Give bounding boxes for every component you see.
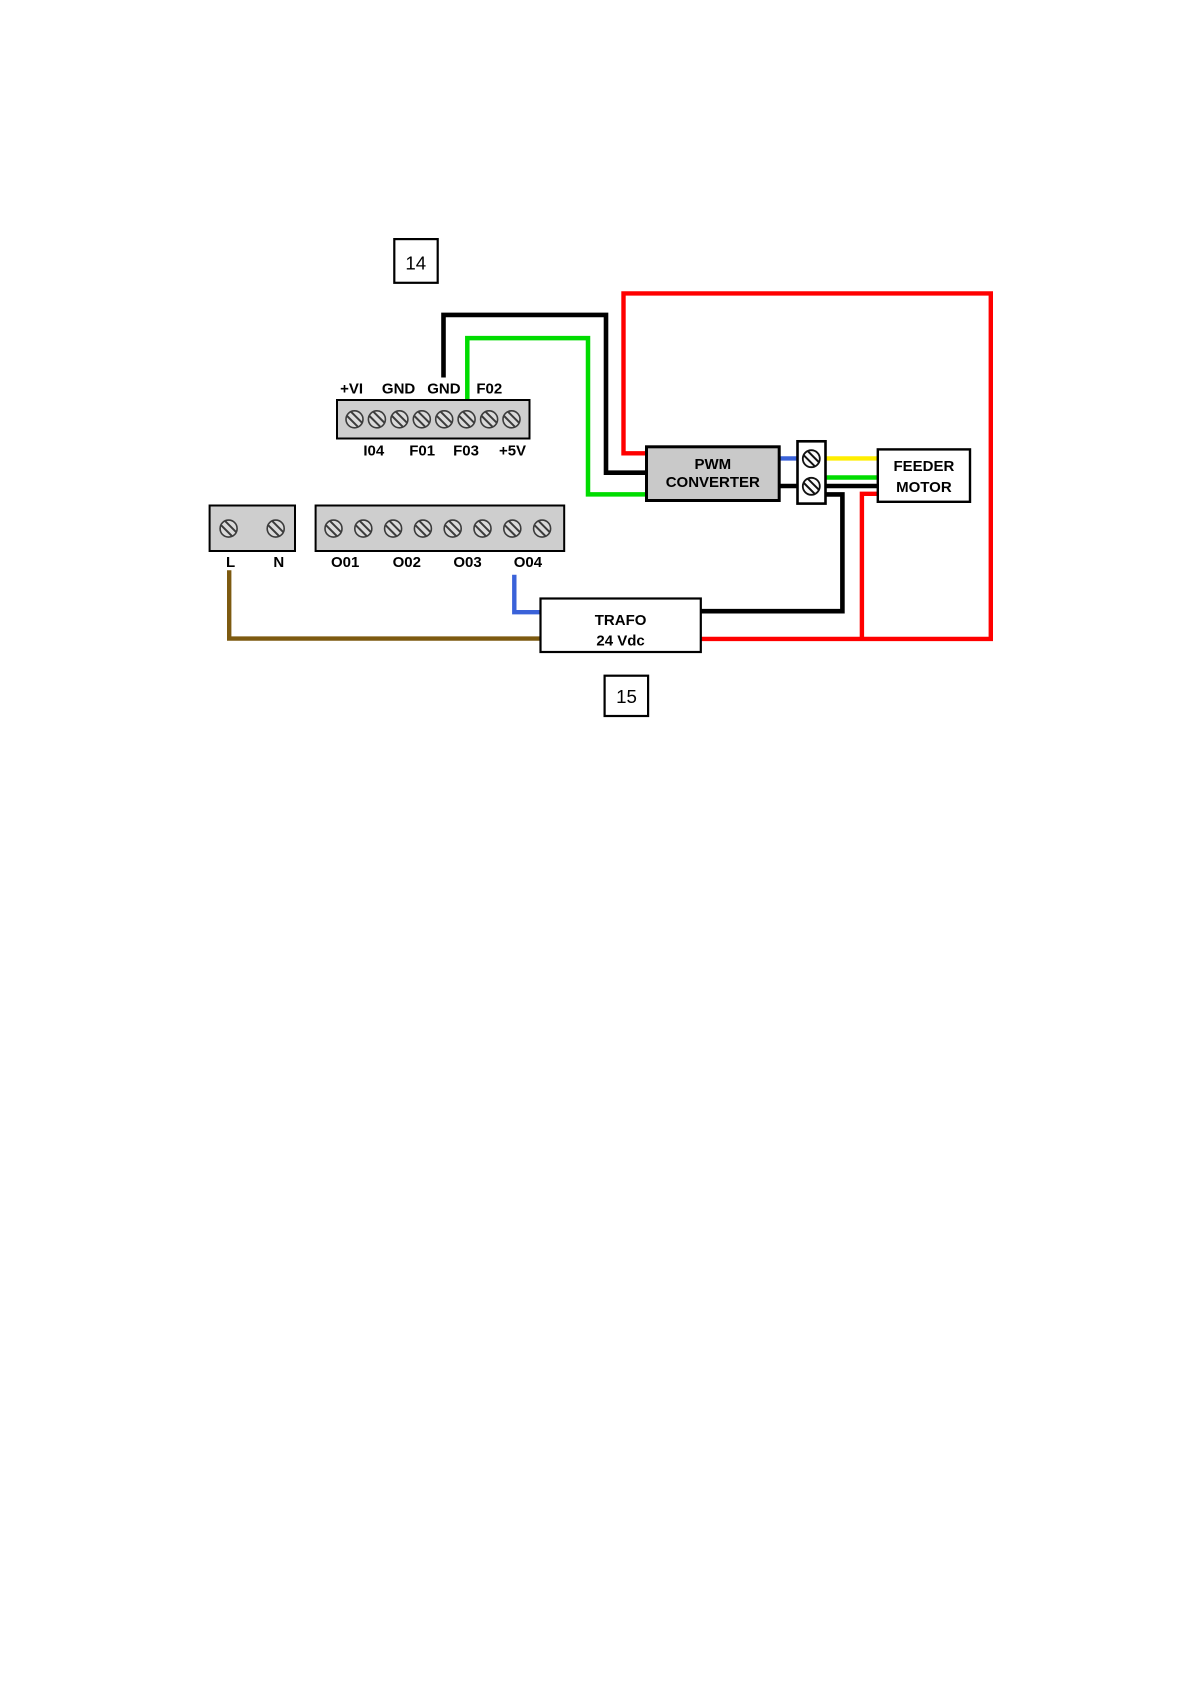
terminal strip TB1 xyxy=(337,400,530,439)
wire red branch to feeder motor xyxy=(862,494,878,641)
wire blue O04 to trafo xyxy=(514,575,541,613)
svg-text:TRAFO: TRAFO xyxy=(595,612,647,629)
svg-text:O01: O01 xyxy=(331,554,359,571)
svg-text:FEEDER: FEEDER xyxy=(893,458,954,475)
svg-text:PWM: PWM xyxy=(694,456,731,473)
svg-text:F02: F02 xyxy=(476,381,502,398)
label box 14 xyxy=(394,239,437,283)
wire brown L to trafo xyxy=(229,570,541,638)
svg-text:O02: O02 xyxy=(393,554,421,571)
wire yellow terminal to feeder motor xyxy=(825,456,878,460)
wire black terminal to trafo xyxy=(701,494,842,611)
svg-text:14: 14 xyxy=(405,252,426,273)
svg-text:F01: F01 xyxy=(409,443,435,460)
wire red supply loop PWM to trafo xyxy=(624,293,991,639)
TB3 screws xyxy=(325,520,551,537)
svg-text:F03: F03 xyxy=(453,443,479,460)
svg-text:+VI: +VI xyxy=(340,381,363,398)
svg-text:24 Vdc: 24 Vdc xyxy=(596,633,644,650)
svg-text:15: 15 xyxy=(616,686,637,707)
svg-text:+5V: +5V xyxy=(499,443,526,460)
wire green F03 to PWM converter xyxy=(467,338,647,494)
terminal strip TB2 L N xyxy=(210,506,295,552)
svg-text:O03: O03 xyxy=(453,554,481,571)
wire red trafo output xyxy=(701,637,993,641)
terminal strip TB3 outputs xyxy=(316,506,565,552)
terminal block TB4 (2 screws vertical) xyxy=(798,441,826,503)
label box 15 xyxy=(605,676,649,716)
svg-text:L: L xyxy=(226,554,235,571)
wire blue PWM to terminal xyxy=(779,456,798,460)
svg-text:CONVERTER: CONVERTER xyxy=(666,474,760,491)
svg-text:MOTOR: MOTOR xyxy=(896,479,952,496)
wire green terminal to feeder motor xyxy=(825,475,878,479)
svg-text:GND: GND xyxy=(427,381,461,398)
svg-text:N: N xyxy=(273,554,284,571)
TB4 screws xyxy=(803,450,820,495)
wire black GND to PWM converter xyxy=(444,315,648,473)
feeder motor box xyxy=(878,449,970,501)
trafo box xyxy=(541,599,701,653)
TB2 screws xyxy=(220,520,284,537)
wire black PWM to feeder motor xyxy=(779,484,878,489)
svg-text:O04: O04 xyxy=(514,554,543,571)
PWM converter box xyxy=(647,447,780,501)
svg-text:I04: I04 xyxy=(363,443,385,460)
svg-text:GND: GND xyxy=(382,381,416,398)
TB1 screws xyxy=(346,411,520,428)
